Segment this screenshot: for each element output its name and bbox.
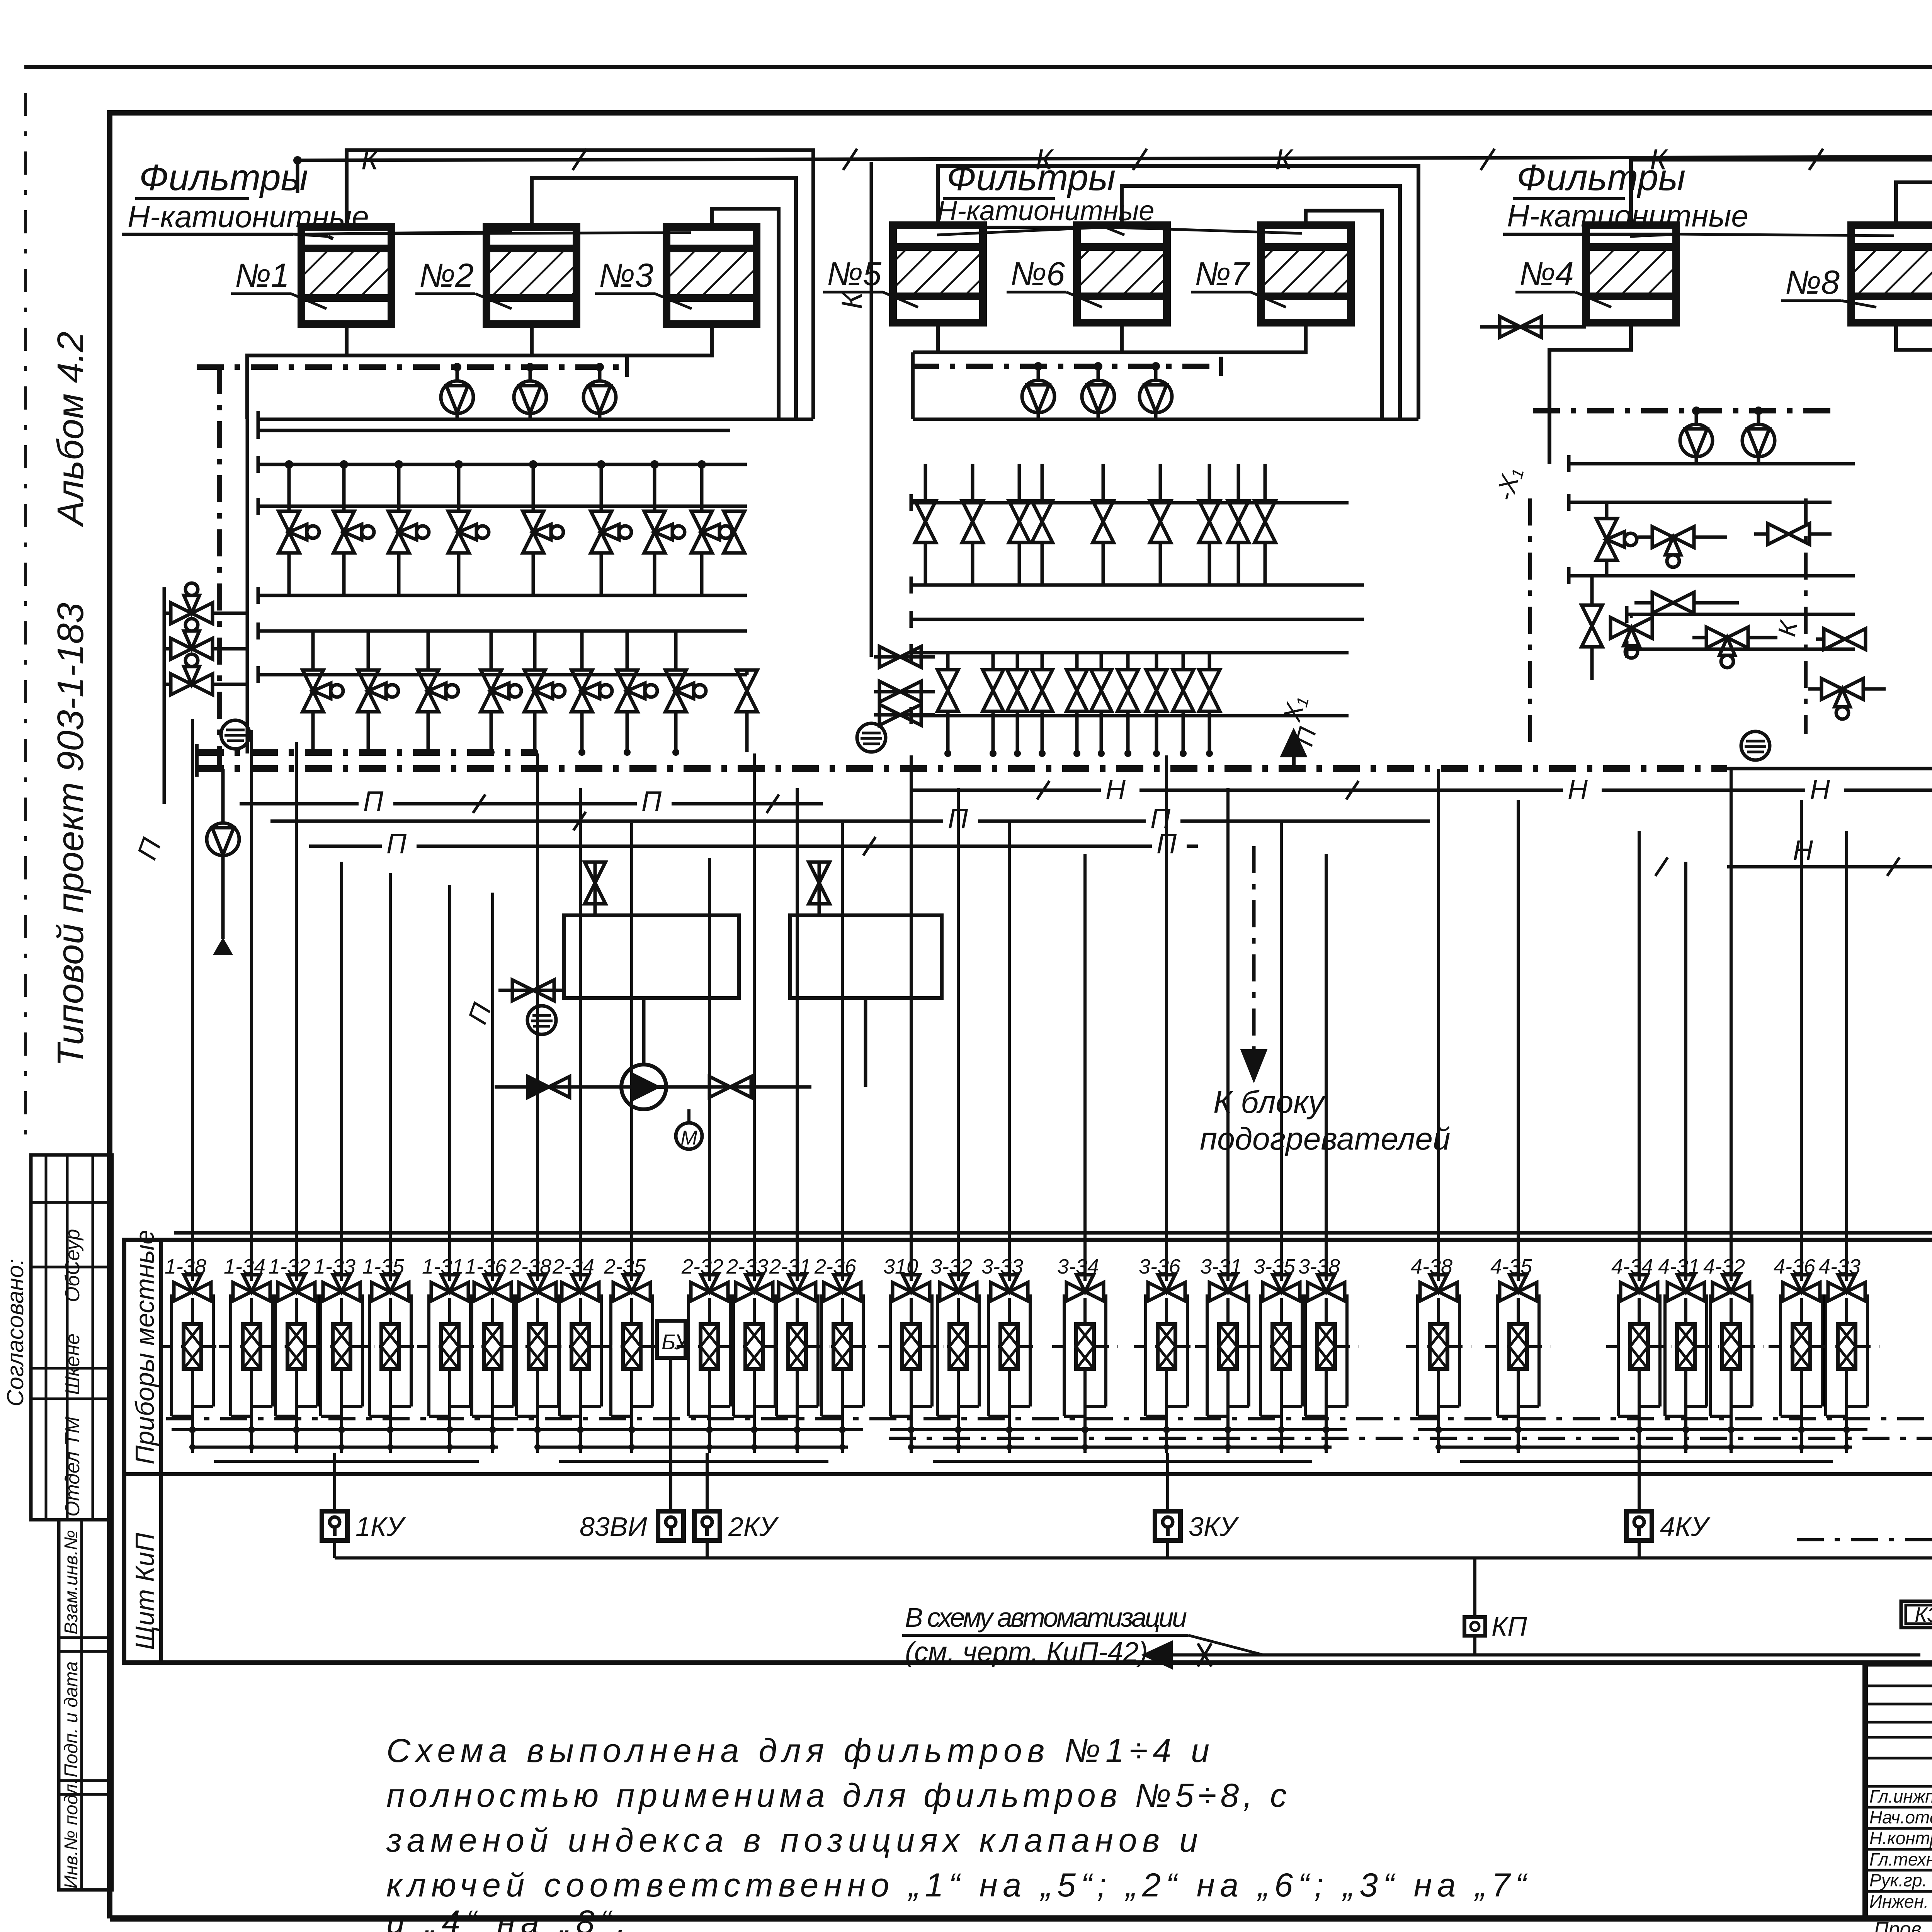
loop wires: [1206, 1294, 1209, 1416]
svg-text:3-38: 3-38: [1298, 1255, 1340, 1278]
valve row2 g2: [1066, 670, 1087, 711]
valve row1 g2: [1032, 501, 1053, 543]
svg-text:П: П: [363, 786, 384, 817]
pump: [1082, 380, 1114, 413]
pump header group1 dash-dot: [197, 364, 627, 370]
drop wire g3: [1226, 788, 1230, 1281]
svg-text:1-34: 1-34: [224, 1255, 265, 1278]
K riser between groups: [870, 162, 873, 657]
filter №4: [1586, 225, 1676, 323]
svg-text:2-32: 2-32: [681, 1255, 723, 1278]
drop wire g2: [841, 823, 844, 1281]
header line group1: [258, 594, 747, 597]
drop wire g3: [1165, 755, 1168, 1281]
key 1KU: [322, 1511, 347, 1541]
valve g3 a: [1596, 519, 1637, 560]
svg-text:Инжен.: Инжен.: [1869, 1891, 1929, 1912]
drop wire g2: [796, 788, 799, 1281]
drop wire g3: [957, 788, 960, 1281]
valve row1 g2: [1093, 501, 1114, 543]
crossover valve pair 2: [874, 690, 935, 694]
header line group1: [258, 463, 747, 466]
drop wire g2: [536, 753, 539, 1281]
thin bus with H labels right: [910, 789, 1932, 792]
svg-text:4-35: 4-35: [1490, 1255, 1532, 1278]
drop wire g3: [910, 755, 913, 1281]
instrument body 1-31: [441, 1324, 459, 1369]
svg-text:2-36: 2-36: [814, 1255, 857, 1278]
svg-text:Гл.техн.: Гл.техн.: [1869, 1849, 1932, 1869]
hx top pipes: [479, 845, 595, 848]
valve row1 g2: [1255, 501, 1276, 543]
valve g3 c: [1768, 524, 1810, 544]
header line group2: [911, 501, 1349, 505]
drop wire g3: [1325, 854, 1328, 1281]
svg-text:1-35: 1-35: [362, 1255, 405, 1278]
valve row2 g2: [1199, 670, 1220, 711]
wire filter8 bottom: [1896, 323, 1932, 483]
instrument panel box: [124, 1240, 1932, 1663]
loop wires: [470, 1294, 473, 1416]
valve row2 g2: [1091, 670, 1112, 711]
key 2KU: [694, 1511, 720, 1541]
control valve row2 g1: [665, 670, 706, 712]
svg-text:ОбСеур: ОбСеур: [61, 1229, 84, 1302]
side valve g1: [171, 619, 213, 659]
svg-text:3-32: 3-32: [930, 1255, 972, 1278]
pump: [1742, 424, 1775, 457]
instrument valve 2-35: [613, 1275, 650, 1301]
pump: [441, 381, 473, 413]
svg-text:1-31: 1-31: [422, 1255, 464, 1278]
instrument valve 3-38: [1308, 1275, 1345, 1301]
label column divider: [159, 1240, 163, 1663]
svg-text:В схему автоматизации: В схему автоматизации: [905, 1602, 1187, 1633]
water seal g3: [1741, 731, 1770, 760]
svg-text:№7: №7: [1195, 255, 1250, 293]
drop wire g1: [250, 730, 253, 1281]
svg-text:№4: №4: [1519, 255, 1574, 293]
instrument valve 2-31: [779, 1275, 816, 1301]
valve row2 g2: [983, 670, 1003, 711]
side valve g1: [171, 583, 213, 624]
wire filter4 top loop: [1631, 160, 1932, 1540]
svg-text:3-31: 3-31: [1200, 1255, 1242, 1278]
svg-text:Приборы местные: Приборы местные: [130, 1230, 160, 1464]
svg-text:П: П: [641, 786, 662, 817]
header line group2: [911, 618, 1364, 621]
svg-text:Н: Н: [1810, 774, 1830, 805]
wire filter7 bottom: [913, 323, 1306, 419]
header line group3: [1627, 613, 1855, 616]
instrument valve 310: [893, 1275, 930, 1301]
instrument body 3-32: [949, 1324, 967, 1369]
header line group2: [911, 714, 1349, 718]
svg-text:К: К: [835, 291, 868, 309]
header line group1: [258, 418, 813, 421]
drop wire g4: [1800, 800, 1803, 1281]
filter №3: [667, 227, 757, 324]
instrument valve 1-36: [474, 1275, 511, 1301]
svg-text:полностью применима для фил: полностью применима для фильтров №5÷8, с: [386, 1777, 1287, 1814]
drawing frame: [107, 110, 1932, 116]
valve g3 h: [1824, 629, 1866, 650]
valve before filter4: [1480, 325, 1586, 329]
bus thin continuation right: [1727, 767, 1932, 770]
wire filter6 bottom: [1120, 323, 1124, 352]
wire filter3 bottom: [263, 324, 712, 355]
heavy riser group1: [217, 367, 222, 769]
valve g3 i: [1821, 679, 1863, 719]
svg-text:Гл.инжпр: Гл.инжпр: [1869, 1786, 1932, 1806]
instrument valve 4-32: [1713, 1275, 1750, 1301]
loop wires: [319, 1294, 322, 1416]
loop wires: [732, 1294, 735, 1416]
instrument valve 3-34: [1066, 1275, 1104, 1301]
drop wire g4: [1845, 831, 1848, 1281]
svg-text:заменой индекса в позициях: заменой индекса в позициях клапанов и: [386, 1822, 1198, 1859]
svg-text:КП: КП: [1492, 1611, 1527, 1641]
wire filter3 top loop: [712, 209, 779, 419]
valve row1 g2: [1228, 501, 1249, 543]
title block frame: [1865, 1664, 1932, 1918]
svg-text:Типовой проект 903-1-183: Типовой проект 903-1-183: [50, 603, 91, 1066]
instrument body 2-31: [788, 1324, 806, 1369]
svg-text:Щит КиП: Щит КиП: [130, 1532, 160, 1650]
svg-text:Альбом 4.2: Альбом 4.2: [50, 332, 91, 527]
pump header group3 dash-dot: [1533, 408, 1831, 413]
control valve row1 g1: [333, 511, 374, 553]
control valve row1 g1: [644, 511, 685, 553]
wire filter5 top loop: [938, 166, 1418, 419]
wire filter5 bottom: [913, 323, 938, 352]
valve g3 e: [1582, 605, 1602, 647]
filter №2: [486, 227, 577, 324]
drop wire g3: [1008, 821, 1011, 1281]
mesh dash-dot long: [166, 1417, 1932, 1420]
pump: [583, 381, 616, 413]
header top group2: [913, 418, 1418, 421]
heat exchanger 1: [564, 915, 739, 998]
thin bus P left: [240, 802, 823, 806]
svg-text:Н-катионитные: Н-катионитные: [128, 199, 369, 234]
instrument body 2-35: [623, 1324, 641, 1369]
svg-text:Инв.№ подл.: Инв.№ подл.: [61, 1779, 82, 1889]
control valve row2 g1: [303, 670, 343, 712]
pump riser left: [221, 769, 225, 823]
header line group1: [258, 673, 747, 677]
svg-text:1-32: 1-32: [269, 1255, 310, 1278]
svg-text:Подп. и дата: Подп. и дата: [61, 1662, 82, 1778]
main pump big: [621, 1065, 666, 1109]
drop wire g2: [630, 823, 633, 1281]
filter №7: [1261, 225, 1351, 323]
svg-text:4-31: 4-31: [1658, 1255, 1700, 1278]
svg-text:Пров.: Пров.: [1874, 1918, 1927, 1932]
signature rows: [1865, 1685, 1932, 1687]
valve row2 g2: [1007, 670, 1028, 711]
vent triangle left: [214, 939, 232, 954]
instrument valve 2-33: [736, 1275, 773, 1301]
svg-text:Шкене: Шкене: [61, 1333, 84, 1395]
svg-text:№1: №1: [235, 257, 289, 294]
header line group1: [258, 505, 747, 508]
svg-text:КЭП: КЭП: [1915, 1602, 1932, 1627]
K distribution line: [298, 156, 1932, 160]
instrument body 4-36: [1793, 1324, 1810, 1369]
valve row2 g2: [1146, 670, 1167, 711]
svg-text:Отдел ТМ: Отдел ТМ: [61, 1417, 84, 1517]
instrument body 1-34: [243, 1324, 260, 1369]
automation arrow line: [1146, 1653, 1920, 1656]
hx risers: [594, 862, 597, 915]
loop wires: [1617, 1294, 1620, 1416]
loop wires: [1663, 1294, 1667, 1416]
valve row1 g2: [1199, 501, 1220, 543]
instrument body 2-36: [833, 1324, 851, 1369]
instrument valve 1-35: [372, 1275, 409, 1301]
drop wire g2: [753, 753, 756, 1281]
heavy bus upper segment: [197, 749, 537, 756]
drop wire g1: [295, 742, 298, 1281]
key 4KU: [1626, 1511, 1652, 1541]
loop wires: [1259, 1294, 1262, 1416]
loop wires: [1416, 1294, 1419, 1416]
misc mid risers: [642, 998, 646, 1065]
svg-text:№8: №8: [1785, 264, 1840, 301]
control valve row1 g1: [448, 511, 489, 553]
pump: [1022, 380, 1054, 413]
pump header group2 dash-dot: [912, 364, 1221, 369]
drop wire g3: [1083, 854, 1087, 1281]
loop wires: [936, 1294, 939, 1416]
svg-text:Н.контр.: Н.контр.: [1869, 1828, 1932, 1848]
instrument body 3-34: [1076, 1324, 1094, 1369]
loop wires: [368, 1294, 371, 1416]
valve g3 b: [1652, 527, 1694, 567]
loop wires: [515, 1294, 518, 1416]
svg-text:3-35: 3-35: [1253, 1255, 1296, 1278]
instrument valve 4-34: [1621, 1275, 1658, 1301]
instrument valve 4-33: [1828, 1275, 1865, 1301]
pump left: [207, 823, 239, 855]
loop wires: [170, 1294, 173, 1416]
drop wire g2: [579, 788, 582, 1281]
BU box: [657, 1321, 685, 1358]
svg-text:№6: №6: [1010, 255, 1065, 293]
loop wires: [987, 1294, 990, 1416]
instrument body 1-36: [484, 1324, 502, 1369]
control valve row2 g1: [571, 670, 612, 712]
control valve row1 g1: [388, 511, 429, 553]
drop wire g3: [1280, 821, 1283, 1281]
crossover valve pair 1: [874, 655, 935, 659]
mesh collector: [517, 1428, 863, 1431]
crossover valve pair 3: [874, 713, 935, 717]
actuator collector: [1797, 1538, 1932, 1541]
header line group3: [1569, 574, 1855, 578]
wire filter8 top loop: [1896, 182, 1932, 719]
svg-text:1-36: 1-36: [465, 1255, 507, 1278]
filter №5: [893, 225, 983, 323]
mesh dash-dot second: [889, 1437, 1932, 1440]
loop wires: [687, 1294, 690, 1416]
valve g3 d: [1652, 592, 1694, 613]
control valve row1 g1: [591, 511, 631, 553]
loop wires: [1304, 1294, 1307, 1416]
svg-text:№2: №2: [419, 257, 474, 294]
motor M: [676, 1123, 702, 1149]
wire filter1 top loop: [347, 150, 813, 419]
left approval table: [31, 1155, 112, 1520]
svg-text:Н: Н: [1568, 774, 1588, 805]
control valve row1 g1: [691, 511, 732, 553]
seal circle mid: [527, 1006, 556, 1034]
check valve filled: [528, 1077, 570, 1097]
header line group1: [258, 629, 747, 633]
instrument valve 1-32: [278, 1275, 315, 1301]
thin bus P mid: [270, 820, 1430, 823]
svg-text:2-38: 2-38: [509, 1255, 551, 1278]
instrument body 1-38: [184, 1324, 201, 1369]
instrument body 3-36: [1158, 1324, 1175, 1369]
arrow down to heaters: [1252, 846, 1256, 1065]
valve row1 g2: [1150, 501, 1171, 543]
svg-text:83ВИ: 83ВИ: [580, 1512, 648, 1542]
wire filter4 bottom: [1549, 323, 1631, 464]
loop wires: [609, 1294, 612, 1416]
arrow up mid: [1292, 736, 1296, 768]
instrument valve 3-32: [940, 1275, 977, 1301]
loop wires: [1779, 1294, 1782, 1416]
valve g3 g: [1706, 627, 1748, 668]
header line group3: [1569, 462, 1855, 466]
drop wire g4: [1730, 769, 1733, 1281]
key 3KU: [1155, 1511, 1180, 1541]
mesh collector: [1418, 1428, 1867, 1431]
svg-text:№5: №5: [827, 255, 882, 293]
instrument body 3-33: [1000, 1324, 1018, 1369]
drop wire g4: [1437, 769, 1440, 1281]
valve row1 g2: [962, 501, 983, 543]
filter №8: [1851, 225, 1932, 323]
svg-text:К блоку: К блоку: [1213, 1085, 1326, 1120]
filter №6: [1077, 225, 1167, 323]
header line group3: [1569, 501, 1832, 504]
loop wires: [427, 1294, 430, 1416]
header line group3: [1627, 648, 1855, 651]
svg-text:К: К: [361, 143, 380, 175]
instrument body 2-34: [571, 1324, 589, 1369]
loop wires: [1144, 1294, 1147, 1416]
instrument body 1-32: [287, 1324, 305, 1369]
svg-text:К: К: [1275, 143, 1294, 175]
feeder line above instrument box: [174, 1231, 1932, 1235]
instrument valve 3-35: [1263, 1275, 1300, 1301]
instrument body 4-33: [1838, 1324, 1855, 1369]
instrument valve 2-34: [562, 1275, 599, 1301]
pump: [514, 381, 546, 413]
svg-text:2-34: 2-34: [552, 1255, 594, 1278]
svg-text:П: П: [386, 828, 407, 859]
instrument body 4-34: [1630, 1324, 1648, 1369]
slash ticks on buses: [473, 794, 485, 813]
svg-text:2-35: 2-35: [604, 1255, 646, 1278]
drop wire g1: [389, 873, 392, 1281]
instrument body 310: [902, 1324, 920, 1369]
instrument valve 2-38: [519, 1275, 556, 1301]
pump line mid: [495, 1085, 811, 1089]
drop wire g4: [1638, 831, 1641, 1281]
instrument valve 3-33: [991, 1275, 1028, 1301]
instrument valve 1-38: [174, 1275, 211, 1301]
loop wires: [229, 1294, 232, 1416]
heat exchanger 2: [790, 915, 942, 998]
K dash-dot riser g3: [1804, 498, 1808, 734]
svg-text:4-32: 4-32: [1703, 1255, 1745, 1278]
svg-text:Взам.инв.№: Взам.инв.№: [61, 1530, 82, 1634]
plain valve row2 g1: [736, 670, 757, 712]
svg-text:№3: №3: [599, 257, 653, 294]
pump: [1139, 380, 1172, 413]
instrument body 3-38: [1317, 1324, 1335, 1369]
instrument body 3-35: [1272, 1324, 1290, 1369]
instrument body 4-38: [1430, 1324, 1447, 1369]
svg-text:4-33: 4-33: [1819, 1255, 1861, 1278]
svg-text:4КУ: 4КУ: [1660, 1512, 1711, 1542]
instrument body 4-31: [1677, 1324, 1695, 1369]
header line group2: [911, 651, 1349, 655]
valve pair end row1 g1: [724, 511, 745, 553]
svg-text:4-34: 4-34: [1611, 1255, 1653, 1278]
wire filter2 bottom: [530, 324, 534, 355]
section divider: [124, 1472, 1932, 1476]
svg-text:3-33: 3-33: [981, 1255, 1023, 1278]
instrument valve 4-36: [1783, 1275, 1820, 1301]
svg-text:3-36: 3-36: [1139, 1255, 1181, 1278]
instrument valve 4-31: [1667, 1275, 1704, 1301]
svg-text:2-31: 2-31: [769, 1255, 811, 1278]
svg-text:2КУ: 2КУ: [728, 1512, 779, 1542]
KEP box: [1901, 1601, 1932, 1628]
loop wires: [820, 1294, 823, 1416]
KP box: [1464, 1617, 1485, 1636]
wire filter2 top loop: [532, 178, 796, 419]
drop wire g1: [340, 862, 343, 1281]
svg-text:Н: Н: [1793, 835, 1813, 866]
loop wires: [274, 1294, 277, 1416]
valve g3 f: [1611, 617, 1652, 658]
svg-text:Нач.отд.: Нач.отд.: [1869, 1807, 1932, 1827]
control valve row2 g1: [481, 670, 521, 712]
H feed line to buffer filters: [1727, 865, 1932, 869]
loop wires: [1496, 1294, 1499, 1416]
hx valve 2: [809, 862, 830, 904]
loop wires: [889, 1294, 892, 1416]
instrument body 2-33: [745, 1324, 763, 1369]
instrument body 1-35: [381, 1324, 399, 1369]
instrument valve 4-38: [1420, 1275, 1457, 1301]
instrument body 4-32: [1722, 1324, 1740, 1369]
svg-text:4-36: 4-36: [1774, 1255, 1816, 1278]
filter №1: [301, 227, 391, 324]
mesh collector: [172, 1428, 514, 1431]
key 83VI: [658, 1511, 684, 1541]
hx valve 1: [585, 862, 605, 904]
svg-text:310: 310: [883, 1255, 918, 1278]
side valve g1: [171, 654, 213, 695]
mesh collector: [890, 1428, 1347, 1431]
